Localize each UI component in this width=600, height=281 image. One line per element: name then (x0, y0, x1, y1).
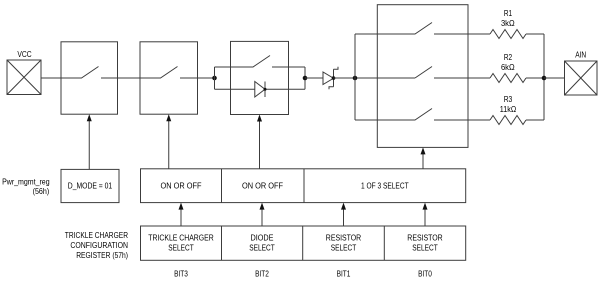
svg-text:D_MODE = 01: D_MODE = 01 (68, 182, 113, 191)
switch S3 top branch (215, 56, 306, 68)
arrow BIT3 (179, 203, 184, 226)
wire bus to AIN (544, 77, 565, 79)
arrow BIT2 (260, 203, 265, 226)
register D_MODE box (61, 169, 119, 202)
wire R1 to bus (526, 33, 544, 35)
wire to R1 (468, 33, 490, 35)
wire VCC to S1 (41, 77, 61, 79)
resistor select box U4 (377, 5, 468, 148)
wire D2 to node C and into resistor-select box (334, 77, 416, 79)
svg-text:ON OR OFF: ON OR OFF (161, 182, 202, 191)
svg-text:1 OF 3 SELECT: 1 OF 3 SELECT (361, 182, 409, 191)
node A junction (212, 76, 217, 81)
svg-text:AIN: AIN (575, 50, 586, 59)
schottky diode D2 (323, 67, 338, 90)
label trickle charger configuration register (57h) (65, 231, 128, 260)
label R2 6k (501, 53, 515, 72)
svg-text:6kΩ: 6kΩ (501, 63, 515, 72)
node B junction (303, 76, 308, 81)
svg-text:3kΩ: 3kΩ (501, 19, 515, 28)
switch box S1 (trickle charger enable) (61, 42, 118, 114)
arrow ON-OR-OFF to U3 (257, 115, 262, 169)
svg-text:BIT2: BIT2 (255, 270, 269, 279)
wire S1 to S2 (118, 77, 141, 79)
diode D1 bottom branch (215, 82, 306, 98)
svg-text:BIT3: BIT3 (174, 270, 188, 279)
arrow BIT1 (341, 203, 346, 226)
svg-text:RESISTOR: RESISTOR (407, 233, 443, 242)
svg-text:SELECT: SELECT (412, 243, 438, 252)
svg-text:REGISTER (57h): REGISTER (57h) (76, 251, 128, 260)
svg-text:DIODE: DIODE (251, 233, 274, 242)
switch S6 bottom branch (355, 109, 468, 121)
switch box S2 (diode bypass enable) (140, 42, 198, 114)
svg-text:BIT0: BIT0 (418, 270, 432, 279)
svg-text:BIT1: BIT1 (337, 270, 351, 279)
port AIN (565, 61, 598, 95)
svg-text:CONFIGURATION: CONFIGURATION (70, 241, 128, 250)
wire S2 to node A (198, 77, 215, 79)
resistor R3 (490, 116, 526, 125)
svg-text:RESISTOR: RESISTOR (326, 233, 362, 242)
arrow BIT0 (423, 203, 428, 226)
resistor R2 (490, 74, 526, 83)
wire to R2 (468, 77, 490, 79)
wire output bus (543, 34, 545, 120)
svg-text:Pwr_mgmt_reg: Pwr_mgmt_reg (2, 177, 50, 186)
resistor R1 (490, 30, 526, 39)
wire bracket right of box U3 (304, 67, 306, 89)
port VCC (7, 60, 41, 95)
svg-text:ON OR OFF: ON OR OFF (242, 182, 283, 191)
svg-text:SELECT: SELECT (249, 243, 275, 252)
wire R2 to bus (526, 77, 544, 79)
switch box U3 (diode select) (231, 41, 289, 114)
svg-text:VCC: VCC (17, 50, 31, 59)
wire R3 to bus (526, 119, 544, 121)
label R3 11k (500, 95, 516, 114)
switch S5 middle branch (415, 67, 468, 79)
svg-text:TRICKLE CHARGER: TRICKLE CHARGER (148, 233, 214, 242)
label R1 3k (501, 9, 515, 28)
wire to R3 (468, 119, 490, 121)
register row: on-or-off row (141, 169, 466, 203)
wire bracket left of box U3 (214, 67, 216, 89)
arrow 1-OF-3 to U4 (421, 147, 426, 168)
svg-text:SELECT: SELECT (168, 243, 194, 252)
node D junction (542, 76, 547, 81)
svg-text:SELECT: SELECT (331, 243, 357, 252)
arrow D_MODE to S1 (87, 114, 92, 169)
svg-text:R1: R1 (504, 9, 513, 18)
svg-text:(56h): (56h) (33, 187, 50, 196)
svg-text:R3: R3 (504, 95, 513, 104)
node C junction (353, 76, 358, 81)
svg-text:TRICKLE CHARGER: TRICKLE CHARGER (65, 231, 128, 240)
svg-text:11kΩ: 11kΩ (500, 105, 516, 114)
wire bracket left of resistor-select box (354, 34, 356, 120)
switch S4 top branch (355, 23, 468, 35)
svg-text:R2: R2 (504, 53, 513, 62)
register row: bit-select row (141, 226, 466, 260)
label Pwr_mgmt_reg (56h) (2, 177, 50, 196)
wire node B to D2 (305, 77, 323, 79)
arrow ON-OR-OFF to S2 (166, 114, 171, 169)
